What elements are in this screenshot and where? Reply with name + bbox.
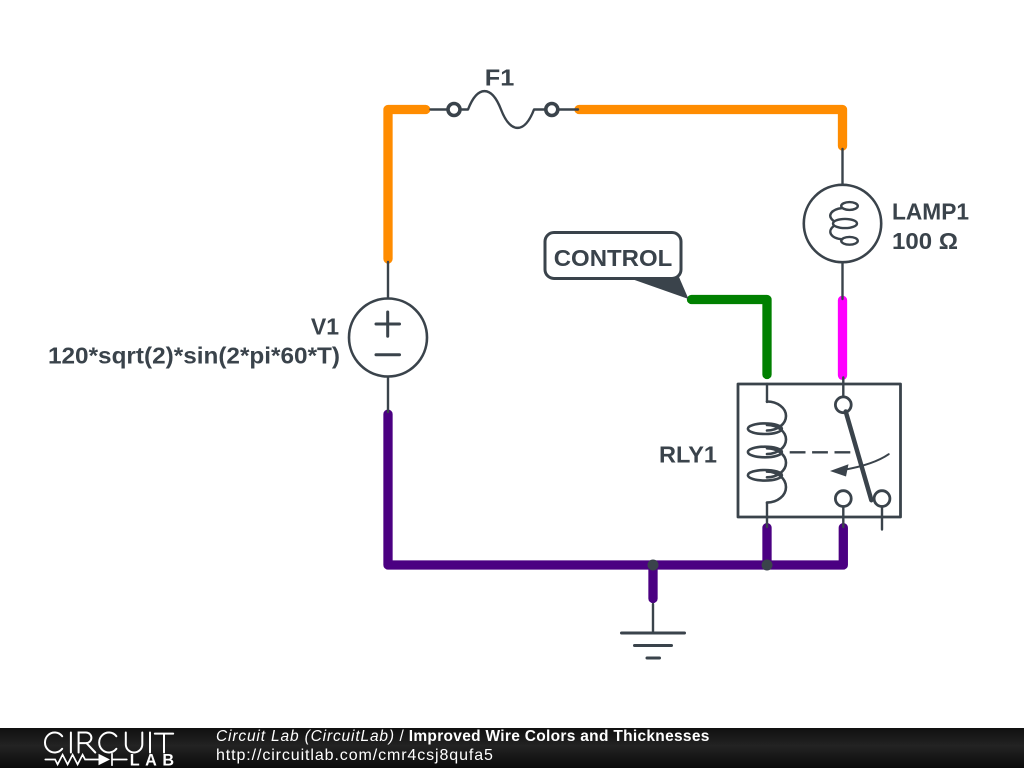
relay RLY1 box (738, 384, 901, 517)
CONTROL callout box (545, 233, 681, 279)
logo letter C (99, 733, 116, 753)
svg-text:V1: V1 (311, 314, 339, 340)
junction node at ground tap (648, 560, 659, 571)
relay actuation dashed line (790, 451, 851, 453)
voltage source V1 body (349, 299, 427, 377)
footer title text (216, 727, 710, 766)
wire green CONTROL net to relay coil top (692, 300, 768, 375)
lamp LAMP1 bottom pin (841, 244, 843, 299)
relay coil top pin (766, 384, 768, 402)
svg-text:LAMP1: LAMP1 (892, 199, 969, 225)
svg-text:120*sqrt(2)*sin(2*pi*60*T): 120*sqrt(2)*sin(2*pi*60*T) (48, 343, 340, 369)
relay switch blade (846, 412, 872, 501)
wire magenta net LAMP1 bottom to relay switch top (838, 300, 847, 375)
svg-text:100 Ω: 100 Ω (892, 228, 958, 254)
logo resistor zigzag and diode (45, 754, 127, 766)
V1 plus sign (376, 312, 400, 336)
logo letter I (149, 733, 151, 753)
V1 minus sign (376, 353, 400, 356)
fuse F1 left pin (431, 108, 449, 110)
fuse F1 right pin (558, 108, 578, 110)
logo letter U (126, 733, 143, 753)
relay switch bottom-left terminal (835, 491, 851, 507)
logo letter T (155, 734, 173, 753)
footer bar (0, 728, 1024, 768)
relay switch bottom-left pin (842, 507, 844, 528)
lamp filament spiral (841, 202, 858, 210)
svg-text:F1: F1 (485, 64, 515, 90)
relay switch top pin (842, 378, 844, 398)
wire purple relay coil bottom pin to bus (762, 528, 771, 565)
logo letter I (70, 733, 72, 753)
voltage source V1 bottom pin (387, 377, 389, 413)
relay actuation arrow (844, 454, 889, 470)
relay coil (767, 402, 786, 431)
CONTROL callout pointer (626, 277, 689, 299)
fuse F1 body (448, 104, 460, 116)
CircuitLab logo (0, 728, 1024, 768)
wire orange net V1+ to fuse F1 left (388, 110, 426, 259)
relay coil bottom pin (766, 503, 768, 527)
logo letter C (45, 733, 62, 753)
wire purple ground stub (648, 565, 657, 599)
relay switch bottom-right terminal (874, 491, 890, 507)
relay switch bottom-right pin stub (881, 507, 883, 530)
lamp LAMP1 top pin (841, 149, 843, 205)
svg-text:LAB: LAB (130, 751, 180, 768)
svg-text:CONTROL: CONTROL (554, 245, 673, 271)
wire orange net fuse F1 right to LAMP1 top (579, 110, 843, 147)
relay switch top terminal (835, 397, 851, 413)
ground pin (652, 604, 654, 633)
junction node at coil pin tap (762, 560, 773, 571)
logo letter R (79, 733, 96, 753)
ground symbol (622, 632, 685, 635)
svg-text:RLY1: RLY1 (659, 442, 717, 468)
lamp LAMP1 body (804, 185, 881, 262)
voltage source V1 top pin (387, 262, 389, 299)
wire purple ground net: V1- down, bus right, up to switch pin (388, 414, 843, 565)
